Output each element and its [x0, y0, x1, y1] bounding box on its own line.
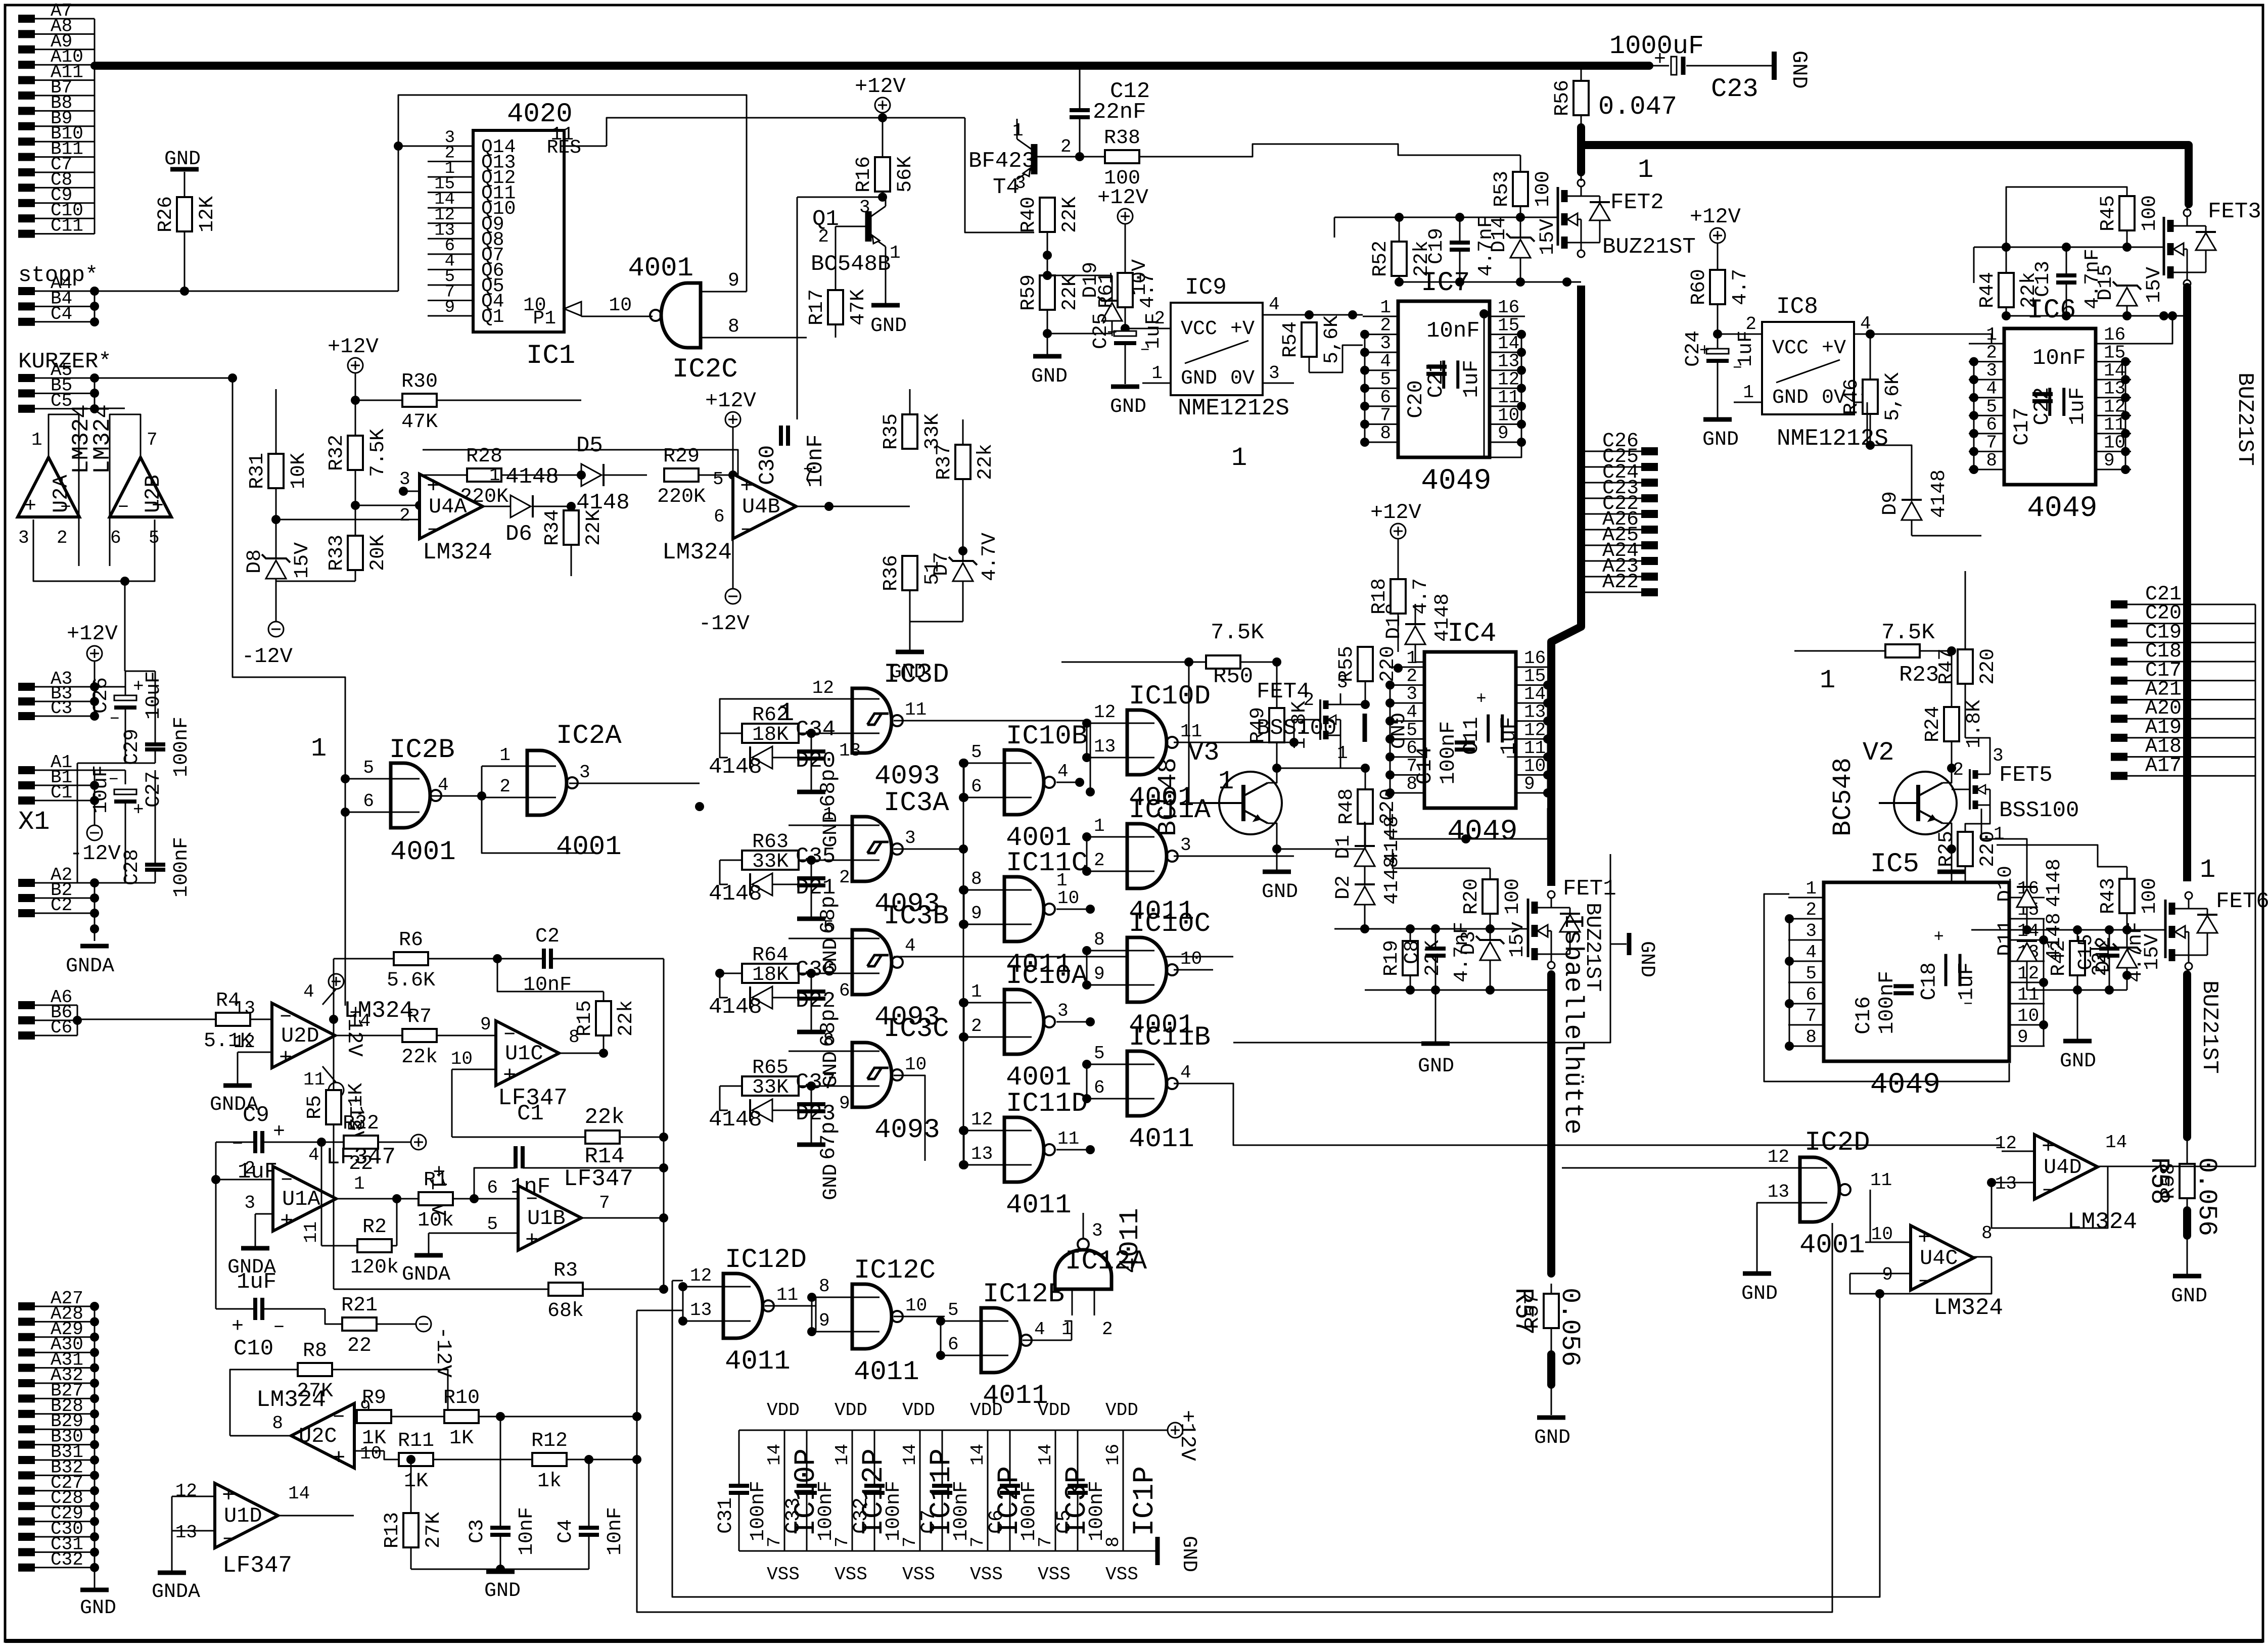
svg-text:U1D: U1D: [224, 1504, 262, 1528]
resistor R46 5,6K: [1840, 334, 1905, 450]
svg-text:13: 13: [234, 998, 255, 1019]
svg-text:1k: 1k: [537, 1470, 562, 1493]
svg-text:–: –: [1918, 1268, 1931, 1293]
svg-text:13: 13: [690, 1300, 712, 1321]
svg-text:R48: R48: [1335, 788, 1358, 825]
wire U4B out: [796, 502, 910, 511]
wire FET1 bottom rail: [1365, 960, 1551, 995]
thick FET3 source stub: [2183, 287, 2191, 354]
svg-text:FET1: FET1: [1563, 876, 1616, 902]
svg-text:22K: 22K: [1059, 197, 1082, 233]
svg-text:11: 11: [1870, 1170, 1892, 1191]
capacitor C13 4.7nF: [2032, 247, 2104, 316]
svg-text:–: –: [60, 495, 72, 518]
svg-text:U1A: U1A: [282, 1187, 320, 1211]
svg-text:6: 6: [948, 1334, 959, 1355]
svg-text:9: 9: [1498, 423, 1509, 444]
svg-text:5,6K: 5,6K: [1321, 315, 1344, 364]
svg-text:FET6: FET6: [2216, 889, 2268, 914]
capacitor C25 1uF: [1090, 313, 1165, 384]
svg-text:3: 3: [1269, 363, 1280, 384]
svg-text:D5: D5: [576, 433, 603, 458]
svg-text:IC1P: IC1P: [1129, 1466, 1162, 1536]
svg-text:GND: GND: [1418, 1055, 1454, 1078]
diode D9 4148: [1879, 469, 1981, 536]
gate IC2A 4001: [482, 721, 622, 863]
svg-text:5: 5: [713, 469, 724, 490]
wire IC3C out: [894, 1054, 927, 1161]
resistor R57 0.056: [1508, 1284, 1585, 1367]
gate IC12C 4011: [807, 1255, 945, 1388]
wire V3 base: [1184, 657, 1219, 803]
svg-text:IC2A: IC2A: [556, 721, 622, 751]
svg-text:8: 8: [1380, 423, 1391, 444]
svg-text:9: 9: [2104, 450, 2115, 471]
rc network R63 D21 C35: [709, 825, 843, 974]
svg-text:1: 1: [1218, 767, 1234, 796]
wire IC3B to IC11B: [1233, 957, 1234, 1083]
svg-text:+12V: +12V: [1097, 185, 1148, 210]
svg-text:1: 1: [890, 243, 901, 263]
svg-text:1: 1: [354, 1173, 365, 1194]
wire R23 left: [1794, 576, 1885, 695]
svg-text:C9: C9: [243, 1103, 269, 1128]
svg-text:C8: C8: [1401, 940, 1424, 964]
svg-text:2: 2: [1806, 900, 1817, 920]
svg-text:2: 2: [839, 867, 850, 888]
opamp U1C LF347: [451, 1021, 604, 1111]
ground GND bottom-left: [80, 1590, 116, 1620]
transistor FET5 BSS100: [1953, 745, 2079, 844]
svg-text:15V: 15V: [1537, 219, 1559, 255]
svg-text:R38: R38: [1104, 127, 1140, 150]
wire FET3 source rail: [2002, 311, 2187, 344]
svg-text:+: +: [133, 799, 144, 820]
svg-text:A17: A17: [2145, 755, 2182, 777]
svg-text:C2: C2: [535, 925, 560, 948]
wire Q1 emitter: [885, 247, 887, 303]
svg-text:68p: 68p: [816, 769, 841, 807]
svg-text:+: +: [279, 1046, 292, 1071]
svg-text:8: 8: [823, 1030, 834, 1051]
svg-text:VDD: VDD: [835, 1400, 867, 1421]
svg-text:BC548B: BC548B: [811, 252, 891, 277]
thick FET1 source stub: [1547, 974, 1555, 1274]
gate IC3D 4093: [789, 659, 949, 792]
diode D11 4148: [1995, 913, 2066, 990]
resistor R22 22: [321, 1112, 411, 1175]
transistor T4 BF423: [968, 120, 1072, 200]
svg-text:3: 3: [1092, 1220, 1103, 1241]
svg-text:9: 9: [480, 1014, 491, 1035]
svg-text:220: 220: [1977, 648, 2000, 685]
resistor R32 7.5K: [326, 389, 390, 510]
ground GNDA U2D: [210, 1052, 258, 1116]
svg-text:U2C: U2C: [299, 1424, 337, 1448]
svg-text:15v: 15v: [1506, 921, 1529, 958]
svg-text:U4A: U4A: [429, 495, 467, 519]
wire loop inner: [672, 1281, 1884, 1597]
resistor R1 10k: [397, 1169, 518, 1232]
resistor R31 10K: [246, 389, 310, 524]
resistor R3 68k: [334, 1218, 668, 1323]
svg-text:6: 6: [363, 791, 374, 812]
svg-text:220K: 220K: [657, 486, 706, 508]
wire IC12D feeds: [0, 0, 1, 1]
svg-text:100: 100: [1532, 171, 1555, 207]
svg-text:GND: GND: [1384, 713, 1407, 749]
wire FET6 bottom rail: [2027, 975, 2127, 1011]
capacitor C19 4.7nF: [1425, 216, 1498, 282]
svg-text:FET4: FET4: [1257, 679, 1310, 704]
svg-text:100nF: 100nF: [170, 717, 193, 777]
svg-text:13: 13: [1995, 1173, 2017, 1194]
resistor R17 47K: [701, 289, 870, 338]
svg-text:7.5K: 7.5K: [1881, 620, 1935, 645]
svg-text:IC12C: IC12C: [854, 1255, 936, 1286]
svg-text:4049: 4049: [1421, 465, 1491, 498]
wire T4 emitter: [1016, 119, 1018, 139]
svg-text:1: 1: [311, 734, 327, 764]
svg-text:–: –: [108, 768, 119, 789]
wire V3 R48 link: [1277, 764, 1370, 773]
svg-text:IC11C: IC11C: [1006, 848, 1088, 879]
svg-text:22k: 22k: [975, 444, 997, 480]
svg-text:C27: C27: [143, 771, 165, 808]
svg-text:11: 11: [1180, 721, 1202, 742]
svg-text:R40: R40: [1017, 197, 1040, 233]
svg-text:2: 2: [1953, 760, 1964, 780]
svg-text:3: 3: [859, 197, 870, 218]
capacitor C1 1nF: [474, 1101, 668, 1201]
resistor R9 1K: [357, 1387, 448, 1450]
svg-text:4093: 4093: [874, 1115, 940, 1146]
svg-text:IC3D: IC3D: [884, 659, 949, 690]
svg-text:R8: R8: [303, 1340, 327, 1362]
svg-text:33K: 33K: [752, 851, 789, 873]
svg-text:10K: 10K: [288, 453, 310, 489]
svg-text:VDD: VDD: [902, 1400, 935, 1421]
svg-text:U1C: U1C: [505, 1042, 543, 1066]
transistor Q1 BC548B: [811, 197, 901, 277]
thick bus segment right: [1584, 145, 2189, 204]
resistor R24 1.8K: [1922, 651, 1986, 773]
resistor R43 100: [1997, 845, 2161, 930]
label Isbaellelhuette: [1558, 914, 1588, 1135]
diode D5 4148: [576, 400, 647, 515]
wire IC3B out: [894, 935, 1233, 957]
connector pins A2/B2/C2: [18, 865, 99, 941]
svg-text:C34: C34: [796, 717, 836, 742]
svg-text:R6: R6: [399, 929, 423, 952]
svg-text:15V: 15V: [291, 542, 314, 579]
svg-text:1: 1: [489, 465, 500, 486]
svg-text:100nF: 100nF: [883, 1481, 905, 1541]
resistor R53 100: [1491, 155, 1555, 217]
svg-text:C19: C19: [1425, 228, 1448, 264]
svg-text:22: 22: [347, 1335, 372, 1357]
svg-text:C35: C35: [796, 844, 836, 869]
svg-text:2: 2: [244, 1158, 255, 1179]
svg-text:+12V: +12V: [705, 389, 756, 413]
svg-text:R32: R32: [326, 435, 348, 471]
svg-text:C3: C3: [51, 698, 72, 719]
svg-text:–: –: [222, 1526, 235, 1551]
svg-text:4: 4: [438, 775, 449, 795]
svg-text:VSS: VSS: [1105, 1564, 1138, 1585]
svg-text:9: 9: [819, 1310, 830, 1331]
resistor R13 27K: [381, 1459, 500, 1569]
svg-text:R21: R21: [341, 1294, 378, 1317]
svg-text:GNDA: GNDA: [402, 1263, 450, 1286]
svg-text:R26: R26: [155, 196, 177, 232]
svg-text:IC2B: IC2B: [389, 735, 455, 766]
svg-text:–: –: [117, 495, 129, 518]
svg-text:LM324: LM324: [256, 1387, 326, 1413]
connector X1 pins A7-C11: [18, 1, 95, 238]
svg-text:4.7V: 4.7V: [979, 533, 1001, 581]
resistor R50 7.5K: [1174, 620, 1281, 689]
svg-text:5: 5: [948, 1300, 959, 1321]
wire IC2A out: [569, 762, 700, 783]
gate IC3C 4093: [789, 1014, 949, 1146]
gate IC10C 4001: [1082, 909, 1213, 1041]
opamp U4D LM324: [1992, 1132, 2138, 1235]
diode D18 4148: [1383, 593, 1484, 662]
svg-text:100nF: 100nF: [815, 1481, 838, 1541]
resistor R54 5,6K: [1279, 315, 1363, 372]
svg-text:1K: 1K: [449, 1427, 474, 1450]
gate IC11D 4011: [959, 1089, 1095, 1221]
svg-text:+V: +V: [1230, 318, 1255, 341]
connector pins A1/B1/C1: [18, 752, 99, 805]
svg-text:11: 11: [905, 699, 927, 720]
svg-text:0V: 0V: [1230, 367, 1255, 390]
svg-text:4148: 4148: [576, 490, 630, 515]
svg-text:1: 1: [778, 698, 794, 728]
svg-text:VSS: VSS: [767, 1564, 800, 1585]
IC IC7 4049: [1360, 144, 1526, 498]
wire FET2 drain: [1581, 176, 1582, 181]
wire IC2D pin12 feed: [1562, 1167, 1759, 1169]
svg-text:IC5: IC5: [1870, 849, 1919, 880]
wire right ties: [1087, 723, 1090, 1150]
svg-text:R37: R37: [933, 444, 956, 480]
wire IC7 pin1 net: [1479, 309, 1489, 457]
svg-text:2: 2: [1303, 690, 1314, 711]
svg-text:GND: GND: [1635, 941, 1658, 977]
resistor R37 22k: [933, 419, 997, 555]
wire stopp net: [95, 263, 398, 291]
svg-text:8: 8: [1806, 1027, 1817, 1048]
svg-text:5: 5: [971, 742, 982, 763]
wire V2 collector: [1942, 768, 1952, 783]
opamp U2A LM324: [18, 404, 95, 548]
capacitor C2 10nF: [523, 925, 664, 1137]
svg-text:4049: 4049: [2027, 492, 2097, 525]
svg-text:R7: R7: [407, 1006, 432, 1028]
wire U2B feedback: [110, 414, 141, 566]
svg-text:D7: D7: [931, 552, 953, 576]
svg-text:BF423: BF423: [968, 149, 1035, 174]
svg-text:BUZ21ST: BUZ21ST: [2232, 372, 2257, 466]
svg-text:C4: C4: [554, 1519, 577, 1543]
resistor R42 22k: [2048, 930, 2112, 990]
wire P1 to IC2C: [523, 295, 653, 316]
svg-text:C3: C3: [466, 1519, 489, 1543]
svg-text:20K: 20K: [367, 535, 390, 571]
opamp U1D LF347: [172, 1481, 354, 1579]
svg-text:GND: GND: [1110, 396, 1146, 418]
svg-text:1: 1: [31, 430, 42, 450]
svg-text:6: 6: [487, 1177, 498, 1198]
svg-text:1.8K: 1.8K: [1963, 700, 1986, 748]
capacitor C30 10nF: [733, 426, 829, 488]
label net 1 left: [311, 734, 327, 764]
svg-text:0.056: 0.056: [2192, 1157, 2221, 1236]
svg-text:22k: 22k: [584, 1105, 624, 1130]
svg-text:1: 1: [1231, 443, 1247, 473]
power -12V D8: [242, 622, 293, 669]
diode D3 15v: [1458, 921, 1529, 990]
rc network R64 D22 C36: [709, 938, 843, 1088]
wire IC3D out: [894, 699, 1095, 796]
wire U4C fb: [1850, 1257, 1992, 1294]
gate IC3A 4093: [789, 788, 949, 920]
svg-text:C32: C32: [51, 1549, 83, 1570]
svg-text:47K: 47K: [847, 289, 870, 325]
resistor R34 22K: [541, 502, 606, 576]
wire IC7 right ladder link: [1484, 422, 1521, 457]
svg-text:1uF: 1uF: [237, 1269, 276, 1295]
svg-text:1: 1: [1820, 666, 1835, 695]
svg-text:1: 1: [823, 804, 834, 825]
svg-text:5: 5: [487, 1214, 498, 1235]
svg-text:7: 7: [764, 1536, 785, 1547]
capacitor C3 10nF: [466, 1412, 538, 1574]
svg-text:+: +: [273, 1121, 285, 1144]
capacitor C9 1uF: [216, 1103, 326, 1185]
opamp U1A LF347: [216, 1144, 401, 1243]
svg-text:4011: 4011: [725, 1346, 791, 1377]
svg-text:U2D: U2D: [281, 1024, 319, 1048]
svg-text:R52: R52: [1369, 241, 1392, 277]
gate IC2B 4001: [341, 735, 456, 1006]
svg-text:10nF: 10nF: [523, 974, 572, 997]
svg-text:10nF: 10nF: [604, 1507, 627, 1556]
connector pins stopp* A4/B4/C4: [18, 263, 99, 326]
wire FET1 gate rail: [1334, 924, 1528, 933]
ground GND T4: [1031, 334, 1068, 388]
svg-text:C1: C1: [51, 782, 72, 803]
svg-text:4.7: 4.7: [1137, 272, 1160, 308]
resistor R38 100: [1104, 127, 1520, 190]
resistor R33 20K: [276, 505, 390, 581]
svg-text:11: 11: [776, 1285, 798, 1305]
svg-text:100: 100: [1502, 878, 1524, 915]
svg-text:R9: R9: [362, 1387, 386, 1409]
transistor FET1 BUZ21ST: [1528, 876, 1616, 992]
svg-text:3: 3: [1337, 672, 1348, 693]
svg-text:4: 4: [1180, 1062, 1191, 1083]
svg-text:1: 1: [499, 745, 511, 766]
svg-text:11: 11: [2017, 984, 2039, 1005]
diode D10 4148: [1981, 809, 2066, 930]
svg-text:6: 6: [1094, 1077, 1105, 1098]
diode D14 15V: [1488, 216, 1559, 282]
transistor V2 BC548: [1828, 738, 1957, 836]
svg-text:IC4: IC4: [1447, 619, 1496, 649]
svg-text:2: 2: [57, 528, 68, 548]
svg-text:IC10A: IC10A: [1006, 961, 1088, 992]
svg-text:R17: R17: [806, 289, 828, 325]
connector pins C26-A22: [1585, 430, 1658, 596]
svg-text:13: 13: [1094, 736, 1116, 757]
svg-text:22nF: 22nF: [1093, 100, 1146, 125]
IC IC4 4049: [1385, 619, 1552, 849]
svg-text:1uF: 1uF: [1459, 360, 1484, 398]
label LM324 U2C: [256, 1387, 326, 1413]
svg-text:R31: R31: [246, 453, 269, 489]
svg-text:5: 5: [363, 758, 374, 778]
wire IC6 pin1: [1969, 334, 1992, 344]
svg-text:14: 14: [832, 1444, 853, 1466]
svg-text:–: –: [1140, 340, 1150, 359]
svg-text:3: 3: [1993, 745, 2004, 766]
svg-text:R34: R34: [541, 509, 564, 546]
svg-text:C30: C30: [755, 445, 780, 485]
svg-text:1: 1: [1056, 870, 1068, 891]
svg-text:R57: R57: [1508, 1288, 1538, 1335]
resistor R60 4.7: [1688, 269, 1752, 339]
resistor R8 27K: [230, 1340, 452, 1436]
svg-text:10: 10: [2017, 1006, 2039, 1026]
svg-text:D12: D12: [2093, 936, 2115, 973]
svg-text:+12V: +12V: [1370, 500, 1421, 525]
resistor R18 4.7: [1368, 578, 1432, 673]
svg-text:–: –: [232, 1132, 244, 1155]
opamp U4C LM324: [1850, 1223, 2003, 1321]
svg-text:6: 6: [110, 528, 121, 548]
svg-text:+12V: +12V: [1690, 205, 1741, 229]
diode D8 15V: [244, 520, 314, 622]
svg-text:VDD: VDD: [767, 1400, 800, 1421]
wire IC12B out: [1064, 1321, 1072, 1340]
wire Q1 collector: [797, 197, 886, 419]
svg-text:C11: C11: [51, 216, 83, 237]
svg-text:7.5K: 7.5K: [1211, 620, 1264, 645]
capacitor C8 4.7nF: [1401, 922, 1473, 990]
thick node below R56: [1577, 127, 1585, 172]
svg-text:100: 100: [2139, 195, 2161, 231]
ground GND FET6: [2060, 990, 2096, 1073]
svg-text:14: 14: [288, 1483, 310, 1504]
svg-text:R35: R35: [880, 413, 903, 450]
label X1: [18, 807, 50, 837]
svg-text:+: +: [1654, 49, 1666, 71]
svg-text:100nF: 100nF: [747, 1481, 770, 1541]
svg-text:4011: 4011: [1115, 1208, 1146, 1274]
wire R40-KURZER link: [965, 232, 1047, 255]
svg-text:R11: R11: [398, 1430, 434, 1452]
wire R57 gnd: [1551, 1387, 1552, 1415]
svg-text:1: 1: [971, 981, 982, 1002]
power +12V U4A: [328, 335, 379, 389]
diode D6 4148: [505, 464, 571, 547]
svg-text:R12: R12: [531, 1430, 568, 1452]
svg-text:4001: 4001: [1799, 1230, 1865, 1261]
svg-text:+: +: [1107, 324, 1117, 343]
